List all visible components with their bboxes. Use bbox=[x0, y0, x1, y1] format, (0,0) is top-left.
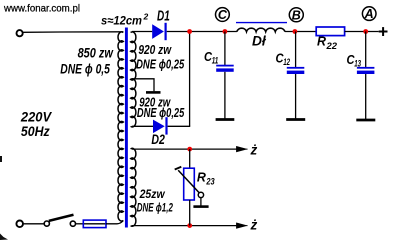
svg-text:850 zw: 850 zw bbox=[78, 46, 115, 61]
node C bbox=[216, 8, 230, 22]
+ terminal bbox=[379, 27, 388, 36]
wire: R23 bottom lead bbox=[189, 200, 191, 226]
capacitor C13 bbox=[357, 32, 375, 120]
resistor R22 bbox=[316, 27, 344, 36]
transformer secondary winding 2x920zw bbox=[131, 32, 136, 127]
label 220V 50Hz bbox=[20, 109, 52, 138]
diode D2 bbox=[153, 117, 168, 134]
chassis bar R23 wiper bbox=[193, 205, 208, 208]
scan artifact bottom-left corner bbox=[0, 234, 8, 240]
label 25zw / DNE 1,2 bbox=[137, 187, 173, 214]
chassis bar C11 bbox=[216, 118, 235, 121]
svg-text:23: 23 bbox=[206, 176, 215, 186]
label C11 bbox=[204, 50, 218, 65]
label C13 bbox=[347, 53, 362, 68]
svg-text:11: 11 bbox=[212, 55, 219, 65]
label s~12cm2 bbox=[101, 12, 149, 28]
R23 wiper arrow bbox=[175, 167, 201, 195]
svg-text:Dł: Dł bbox=[252, 32, 267, 48]
arrow head bottom heater bbox=[237, 223, 248, 228]
svg-text:ż: ż bbox=[250, 142, 258, 157]
wire: D1 cathode along top rail to choke bbox=[167, 31, 237, 33]
chassis bar C13 bbox=[356, 119, 375, 122]
chassis bar C12 bbox=[286, 118, 305, 121]
svg-text:R: R bbox=[317, 33, 327, 48]
input terminal top bbox=[17, 30, 23, 36]
svg-text:DNE ϕ0,25: DNE ϕ0,25 bbox=[136, 57, 185, 71]
capacitor C11 bbox=[216, 32, 234, 119]
svg-text:ż: ż bbox=[250, 217, 258, 232]
svg-text:DNE ϕ 0,5: DNE ϕ 0,5 bbox=[60, 61, 110, 76]
wire: R22 to + terminal bbox=[345, 31, 379, 33]
svg-text:s≈12cm: s≈12cm bbox=[101, 14, 142, 28]
junction dot node A bbox=[363, 29, 368, 34]
label 920 zw / DNE 0,25 (lower half) bbox=[137, 95, 185, 120]
label 920 zw / DNE 0,25 (upper half) bbox=[136, 43, 185, 72]
wire: secondary bottom to diode D2 bbox=[132, 125, 153, 127]
junction dot: rectifier output bbox=[187, 29, 192, 34]
wire: bottom input to switch bbox=[23, 223, 44, 225]
transformer core bbox=[125, 28, 128, 228]
chassis bar (center tap) bbox=[146, 91, 161, 94]
switch bbox=[44, 215, 75, 226]
svg-text:13: 13 bbox=[354, 58, 361, 68]
label C12 bbox=[276, 52, 291, 67]
svg-text:R: R bbox=[197, 169, 207, 184]
wire: switch to fuse bbox=[76, 223, 84, 225]
transformer filament winding 25zw bbox=[131, 148, 136, 226]
wire: choke to R22 bbox=[285, 31, 316, 33]
svg-text:2: 2 bbox=[143, 12, 149, 22]
wire: top input to transformer primary bbox=[23, 31, 124, 34]
potentiometer R23 body bbox=[184, 168, 195, 200]
wire: filament top to heater terminal bbox=[132, 148, 238, 150]
wire: secondary top to diode D1 bbox=[132, 31, 152, 33]
svg-text:25zw: 25zw bbox=[139, 187, 165, 201]
arrow head top heater bbox=[237, 147, 248, 152]
svg-text:DNE ϕ0,25: DNE ϕ0,25 bbox=[137, 106, 185, 120]
diode D1 bbox=[152, 23, 167, 40]
input terminal bottom bbox=[16, 221, 23, 228]
center tap wire bbox=[133, 79, 155, 91]
svg-text:B: B bbox=[292, 8, 301, 22]
svg-text:12: 12 bbox=[283, 57, 290, 67]
junction dot node B bbox=[293, 29, 298, 34]
wire: wiper to chassis bbox=[200, 198, 202, 206]
svg-text:A: A bbox=[364, 7, 374, 21]
svg-text:C: C bbox=[218, 8, 228, 22]
label R23 bbox=[197, 169, 215, 186]
choke Dl winding bbox=[237, 28, 285, 31]
svg-text:920 zw: 920 zw bbox=[138, 43, 172, 57]
wire: fuse to transformer primary bbox=[106, 221, 123, 224]
svg-text:220V: 220V bbox=[20, 109, 52, 124]
svg-text:D2: D2 bbox=[151, 131, 165, 147]
svg-text:DNE ϕ1,2: DNE ϕ1,2 bbox=[137, 201, 173, 215]
junction dot filament bottom bbox=[187, 223, 192, 228]
svg-text:22: 22 bbox=[325, 41, 337, 51]
wire: R23 top lead bbox=[189, 149, 191, 168]
svg-text:www.fonar.com.pl: www.fonar.com.pl bbox=[3, 2, 80, 14]
R23 wiper terminal circle bbox=[198, 192, 203, 197]
transformer primary winding 850zw bbox=[118, 32, 123, 221]
wire: filament bottom to heater terminal bbox=[132, 225, 238, 227]
choke Dl core line bbox=[236, 22, 287, 24]
junction dot node C bbox=[223, 29, 228, 34]
node A bbox=[362, 7, 376, 21]
fuse bbox=[83, 220, 106, 228]
label R22 bbox=[317, 33, 337, 51]
label 850 zw / DNE 0,5 bbox=[60, 46, 114, 77]
capacitor C12 bbox=[287, 32, 305, 119]
svg-text:50Hz: 50Hz bbox=[21, 124, 50, 139]
svg-text:D1: D1 bbox=[157, 8, 170, 24]
wire: D2 cathode to vertical rail bbox=[168, 125, 191, 127]
node B bbox=[289, 8, 303, 22]
wire: D2 cathode rail (vertical) bbox=[189, 32, 191, 127]
junction dot filament top bbox=[187, 147, 192, 152]
scan artifact left edge bbox=[0, 156, 2, 162]
